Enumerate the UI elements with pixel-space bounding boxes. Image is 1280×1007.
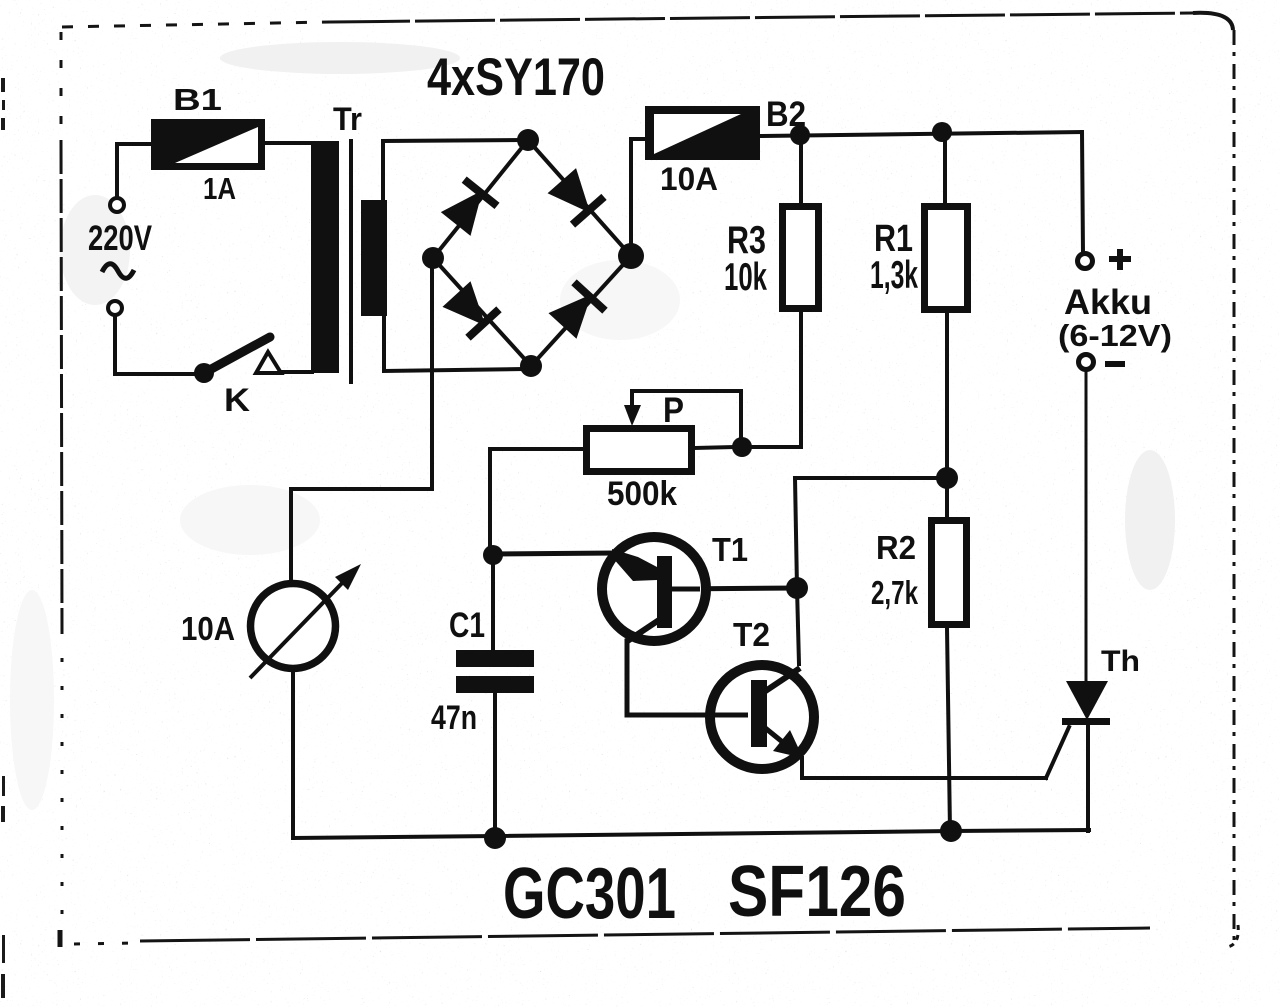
wire R3 bottom to pot right node (751, 312, 801, 447)
node bridge top (517, 129, 539, 151)
wire node left to T-branch (795, 476, 947, 480)
node B2 output (790, 125, 810, 145)
wire bridge left vertex down (430, 258, 434, 489)
wire secondary top to bridge (383, 140, 522, 201)
diode D3 lower-left (441, 280, 502, 341)
wire 220V upper terminal to B1 (117, 144, 151, 197)
node R1 top (932, 122, 952, 142)
transformer secondary winding (361, 200, 387, 316)
frame right border (1233, 30, 1236, 948)
terminal 220V upper (110, 198, 124, 212)
resistor R3 (783, 207, 819, 309)
wire node down to C1 (491, 555, 495, 651)
fuse B2 (645, 106, 760, 160)
frame bottom border (58, 930, 63, 947)
wire to ammeter top (291, 489, 432, 580)
transistor T2 (710, 665, 814, 769)
wire pot wiper stem (630, 391, 634, 412)
terminal 220V lower (108, 301, 122, 315)
wire R1 bottom to node (945, 313, 949, 478)
wire 220V lower terminal to switch (115, 316, 200, 374)
wire C1 bottom down (493, 693, 497, 837)
svg-text:1A: 1A (203, 171, 236, 206)
transistor T1 (602, 537, 706, 642)
pot wiper arrowhead (624, 405, 641, 426)
wire B2 to battery plus corner (760, 132, 1082, 136)
wire R2 bottom to node (947, 628, 950, 831)
terminal Akku plus (1078, 254, 1093, 269)
thyristor Th (1062, 681, 1110, 725)
svg-text:220V: 220V (88, 219, 153, 258)
wire pot wiper top loop (632, 391, 741, 440)
wire down to plus terminal (1082, 132, 1083, 254)
wire T1 emitter down to T2 base (627, 641, 749, 715)
svg-text:T1: T1 (712, 531, 748, 568)
svg-text:SF126: SF126 (728, 852, 906, 932)
node R1 R2 junction (936, 467, 958, 489)
wire node down to R1 (943, 137, 947, 205)
wire pot left lead (490, 449, 583, 548)
node bridge right (618, 243, 644, 269)
diode D1 upper-left (439, 176, 499, 237)
svg-text:P: P (663, 391, 684, 430)
node T1 collector (786, 577, 808, 599)
svg-text:2,7k: 2,7k (871, 574, 918, 611)
svg-text:10A: 10A (181, 610, 235, 647)
diode D4 lower-right (547, 279, 608, 340)
transformer Tr primary winding (311, 141, 339, 373)
ammeter 10A (250, 564, 361, 678)
minus sign (1105, 361, 1125, 367)
wire node down to T2 collector (797, 588, 799, 664)
resistor R2 (932, 521, 967, 625)
transformer core (349, 139, 353, 384)
wire bottom rail (293, 830, 1089, 838)
wire thyristor gate (1046, 727, 1069, 778)
node C1 bottom (484, 827, 506, 849)
svg-text:C1: C1 (449, 606, 485, 645)
wire minus terminal to thyristor anode (1085, 370, 1088, 681)
wire thyristor cathode down (1086, 724, 1090, 831)
node bridge left (422, 247, 444, 269)
bridge rectifier edges (433, 140, 631, 366)
wire node to T1 (492, 553, 614, 554)
potentiometer P (587, 429, 692, 472)
wire T1 collector (671, 588, 796, 589)
svg-text:500k: 500k (607, 475, 677, 513)
svg-text:Th: Th (1101, 645, 1140, 678)
wire bridge right vertex to B2 (631, 139, 646, 256)
scan gray patches (10, 42, 1175, 810)
plus sign (1109, 249, 1131, 270)
node bridge bottom (520, 355, 542, 377)
svg-text:10A: 10A (660, 161, 718, 197)
wire node down to R2 top (945, 478, 949, 518)
svg-text:Tr: Tr (333, 101, 362, 137)
svg-text:47n: 47n (431, 699, 477, 737)
svg-text:B1: B1 (173, 82, 222, 117)
resistor R1 (925, 207, 968, 310)
wire secondary bottom to bridge (384, 316, 522, 371)
switch K (194, 337, 281, 383)
terminal Akku minus (1079, 355, 1094, 370)
svg-text:1,3k: 1,3k (870, 254, 918, 297)
wire down to T1 collector node (795, 478, 797, 588)
svg-text:(6-12V): (6-12V) (1058, 318, 1172, 353)
wire T2 emitter down and right (802, 758, 1046, 778)
wire switch to transformer (281, 370, 312, 374)
svg-text:4xSY170: 4xSY170 (427, 48, 605, 107)
diode D2 upper-right (546, 167, 607, 228)
svg-text:K: K (224, 382, 250, 418)
capacitor C1 (456, 650, 534, 693)
wire ammeter bottom (291, 668, 295, 838)
node pot right (732, 437, 752, 457)
svg-text:10k: 10k (724, 256, 767, 299)
svg-text:Akku: Akku (1064, 283, 1152, 322)
node R2 bottom (940, 820, 962, 842)
svg-text:GC301: GC301 (503, 854, 676, 934)
wire B1 to transformer (265, 141, 312, 145)
wire pot right lead (695, 447, 733, 448)
svg-text:R2: R2 (876, 529, 916, 566)
fuse B1 (151, 119, 265, 170)
AC tilde symbol (102, 264, 134, 279)
wire node B2 down to R3 (799, 140, 803, 203)
scan edge artifacts left (1, 78, 5, 998)
svg-text:T2: T2 (733, 616, 770, 653)
frame left border (60, 32, 63, 140)
node pot left / T1 base (483, 545, 503, 565)
